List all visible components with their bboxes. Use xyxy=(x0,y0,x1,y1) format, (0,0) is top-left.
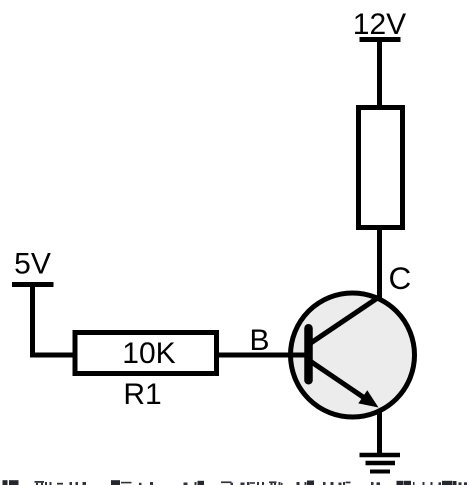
svg-text:B: B xyxy=(250,324,270,357)
svg-text:C: C xyxy=(389,260,412,296)
svg-text:R1: R1 xyxy=(123,378,161,411)
svg-text:10K: 10K xyxy=(122,337,175,370)
svg-text:5V: 5V xyxy=(14,248,51,281)
svg-text:12V: 12V xyxy=(353,8,406,41)
